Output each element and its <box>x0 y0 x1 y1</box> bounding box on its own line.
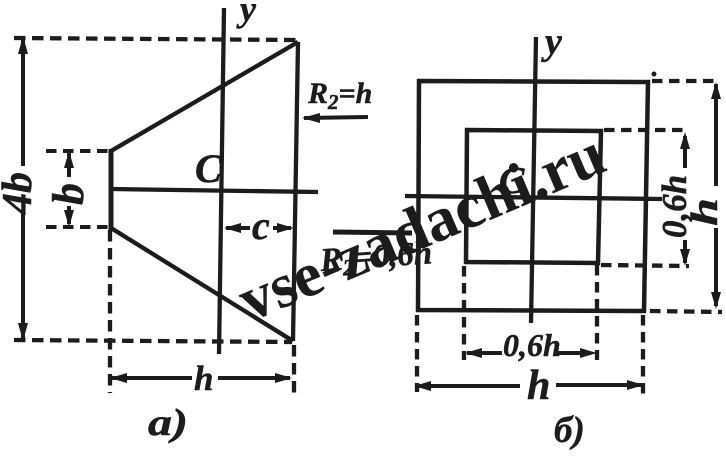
figure a: trapezoid top edge <box>111 42 298 151</box>
arrowhead R2=h (left) <box>302 113 320 123</box>
figure b: dashed extension below outer left edge <box>415 315 419 392</box>
svg-text:R2=h: R2=h <box>307 77 372 114</box>
figure b: outer square <box>418 81 648 311</box>
figure a: top dashed extension line <box>14 38 296 40</box>
svg-text:h: h <box>684 198 726 226</box>
figure a: x axis through centroid <box>111 189 318 192</box>
figure b: dashed extension below inner left edge <box>462 266 466 360</box>
figure a: y axis <box>219 8 224 354</box>
arrowhead h-b left <box>414 381 431 391</box>
R2=0,6h leader line <box>333 232 412 233</box>
dimension h right: line <box>714 84 718 306</box>
arrowhead h-right bottom (down) <box>711 292 721 309</box>
svg-text:y: y <box>541 21 562 63</box>
svg-text:c: c <box>252 203 270 248</box>
svg-text:C: C <box>195 146 223 191</box>
arrowhead h-a left <box>110 373 127 383</box>
figure b: inner square <box>466 130 601 263</box>
dimension 0,6h bottom: line <box>467 351 590 355</box>
figure a: dashed extension below right corner <box>292 345 296 397</box>
svg-text:b: b <box>44 183 93 205</box>
dimension h (fig a): line <box>112 376 290 380</box>
dimension b: line <box>67 153 71 224</box>
figure a: bottom dashed extension line <box>14 340 292 342</box>
figure a: trapezoid right edge <box>293 42 298 341</box>
arrowhead h-right top (up) <box>711 82 721 99</box>
dimension h bottom (fig b): line <box>416 385 641 386</box>
dimension c: line <box>226 226 291 230</box>
arrowhead 0,6h-bottom left <box>465 348 482 358</box>
svg-text:б): б) <box>554 410 585 451</box>
figure b: dashed from outer top-right corner <box>652 79 714 83</box>
svg-text:h: h <box>527 363 550 409</box>
arrowhead 4b top (up) <box>18 36 28 54</box>
figure b: dashed extension below outer right edge <box>641 315 645 396</box>
arrowhead 4b bottom (down) <box>18 323 28 341</box>
dimension b: dashed extension top <box>46 149 108 153</box>
arrowhead 0,6h-right top (up) <box>680 132 690 149</box>
arrowhead b top (up) <box>64 151 74 168</box>
arrowhead 0,6h-bottom right <box>580 348 597 358</box>
figure a: trapezoid left edge <box>109 149 114 230</box>
figure b: dashed from inner top-right corner <box>604 128 688 132</box>
dot near outer top-right corner <box>652 72 657 77</box>
svg-text:4b: 4b <box>0 172 41 215</box>
arrowhead h-a right <box>275 373 292 383</box>
svg-text:y: y <box>236 0 257 29</box>
svg-text:a): a) <box>148 402 188 444</box>
figure b: x axis <box>405 196 662 199</box>
arrowhead c left <box>224 223 241 233</box>
figure b: dashed from inner bottom-right corner <box>601 265 689 266</box>
arrowhead b bottom (down) <box>64 210 74 227</box>
figure a: trapezoid bottom edge <box>111 228 293 341</box>
dimension 4b: line <box>21 37 25 340</box>
figure a: dashed extension below left edge <box>108 230 112 393</box>
arrowhead h-b right <box>627 380 644 390</box>
svg-text:0,6h: 0,6h <box>503 327 561 363</box>
arrowhead 0,6h-right bottom (down) <box>680 249 690 266</box>
figure b: dashed from outer bottom-right corner <box>650 311 722 312</box>
arrowhead c right <box>277 223 294 233</box>
figure b: y axis <box>531 37 536 323</box>
svg-text:h: h <box>194 359 213 398</box>
dimension b: dashed extension bottom <box>46 225 108 229</box>
dimension 0,6h right: line <box>683 136 687 263</box>
figure b: dashed extension below inner right edge <box>595 265 599 360</box>
R2=h leader arrow line <box>304 117 368 118</box>
